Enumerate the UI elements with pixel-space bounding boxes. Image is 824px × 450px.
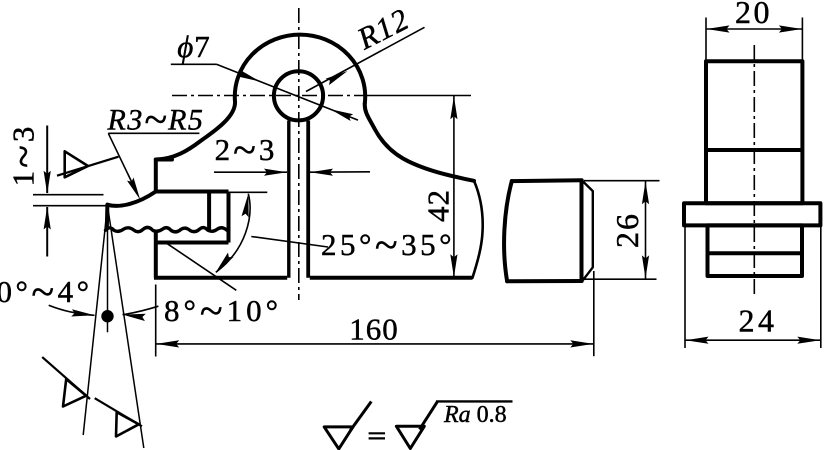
dome arc R12 around hole	[235, 35, 365, 104]
dim 20 line with arrows	[706, 28, 802, 30]
dim phi7 leader line across hole	[217, 64, 359, 120]
seat right wall vertical	[227, 192, 231, 243]
dim 24 extension lines	[684, 226, 686, 348]
dim 20 extension lines	[705, 18, 707, 61]
insert right edge	[580, 180, 584, 281]
insert top edge	[512, 178, 582, 183]
right view upper block divider	[706, 148, 802, 152]
dim 25-35 thin extension of seat top line	[229, 191, 268, 193]
legend equals sign	[369, 432, 385, 434]
svg-text:42: 42	[421, 189, 456, 222]
thin line L2 right flank of V from tool tip	[108, 206, 144, 449]
black dot vertex marker	[101, 310, 113, 322]
main view horizontal centerline	[172, 95, 364, 97]
svg-text:24: 24	[739, 303, 778, 339]
svg-text:26: 26	[609, 212, 645, 248]
right view upper block rectangle	[706, 61, 802, 203]
dim 1~3 line upper part with down arrow	[46, 126, 48, 194]
left S-curve flank of dome	[156, 102, 235, 160]
dim R12 leader line	[306, 27, 425, 91]
dim 160 line with arrows	[156, 343, 594, 345]
dim phi7 underline shelf	[171, 63, 217, 65]
svg-text:20: 20	[735, 0, 772, 30]
right S-curve flank of dome down to body top right	[365, 104, 474, 181]
phi7 hole circle	[274, 71, 323, 120]
main view vertical centerline (through hole and slit)	[298, 8, 300, 300]
dim 2~3 line left segment with arrow	[214, 171, 287, 173]
insert left curved edge	[504, 181, 512, 281]
dim 26 line with arrows	[645, 181, 647, 279]
body bottom edge left of slit	[154, 276, 287, 280]
slit left line from hole to bottom	[287, 121, 290, 278]
dim 25-35 inclined face line	[165, 242, 236, 290]
insert top-right chamfer	[582, 180, 593, 280]
svg-text:Ra 0.8: Ra 0.8	[443, 402, 507, 428]
wavy serrated seat line	[106, 227, 227, 231]
legend left surface symbol	[324, 427, 353, 449]
dim 2~3 line right segment with arrow	[310, 171, 370, 173]
extension of centerline to 42 dim (solid)	[364, 95, 471, 97]
surface symbol triangle on L2 with leg	[116, 412, 139, 436]
dim R3~R5 underline	[108, 132, 199, 134]
neck curve R3~R5 from step down to tool tip	[107, 192, 155, 206]
dim 160 extension lines	[155, 285, 157, 357]
main body left step (vertical + short horizontal at top of step)	[156, 160, 172, 192]
body lower-left vertical edge	[154, 230, 158, 278]
surface symbol triangle on L1 with leg	[63, 379, 86, 406]
thin line L1 left flank of V from tool tip	[83, 206, 107, 436]
right view lower block divider	[708, 251, 803, 255]
svg-text:ϕ7: ϕ7	[177, 29, 211, 64]
seat top line (bottom of upper tongue)	[156, 190, 229, 194]
surface symbol triangle on rake face with leg	[65, 151, 88, 177]
thin vertical line from tip through dot	[107, 206, 109, 333]
dim 42 line with arrows	[453, 96, 455, 278]
legend right surface symbol with Ra 0.8	[396, 426, 424, 448]
dim 25-35 leader to label	[251, 237, 328, 248]
angle arc right (8-10) with arrow	[123, 306, 159, 314]
right view flange rectangle	[684, 203, 820, 225]
insert bottom edge	[507, 279, 582, 283]
right view lower block rectangle	[708, 225, 803, 276]
dim 1~3 extension lines	[33, 194, 104, 196]
slit right line from hole to bottom	[306, 121, 310, 278]
svg-text:160: 160	[349, 312, 399, 347]
seat stop-block left vertical	[207, 192, 211, 230]
dim 26 extension lines	[584, 180, 660, 182]
angle arc left (0-4) with arrow	[49, 305, 95, 315]
dim 24 line with arrows	[685, 339, 821, 341]
dim R3~R5 leader with arrow	[108, 133, 136, 192]
seat bottom line	[156, 241, 229, 245]
dim 1~3 line lower part with up arrow	[46, 207, 48, 257]
right view vertical centerline	[753, 45, 755, 298]
body bottom edge right of slit	[310, 276, 473, 280]
freehand break line at right end of main view	[473, 181, 483, 278]
dim 25-35 angle arc with arrows	[216, 194, 250, 273]
blade front face at tip	[105, 205, 110, 229]
